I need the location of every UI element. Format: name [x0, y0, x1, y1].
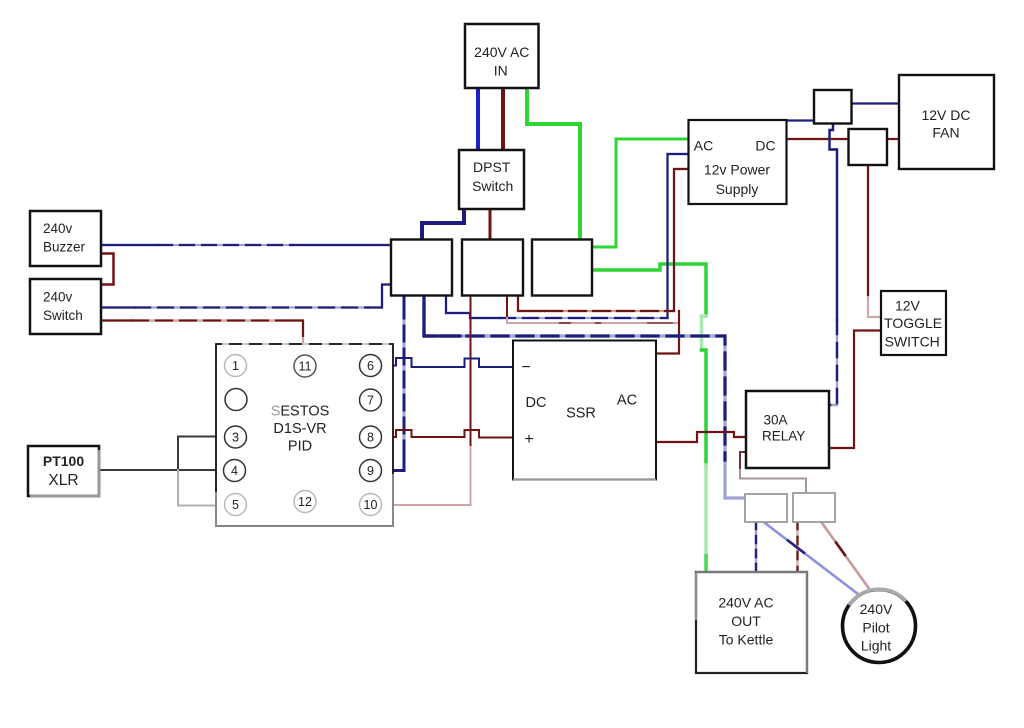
svg-text:SSR: SSR [566, 406, 596, 422]
svg-text:PID: PID [288, 439, 312, 455]
svg-text:Switch: Switch [472, 178, 513, 194]
svg-text:4: 4 [231, 464, 238, 478]
svg-text:+: + [524, 431, 533, 448]
svg-text:To Kettle: To Kettle [719, 632, 774, 648]
svg-text:240V AC: 240V AC [474, 44, 529, 60]
svg-text:11: 11 [299, 360, 312, 374]
svg-text:XLR: XLR [48, 472, 78, 489]
svg-text:AC: AC [617, 393, 637, 409]
svg-text:240v: 240v [43, 221, 73, 236]
svg-text:Pilot: Pilot [862, 620, 889, 636]
svg-text:12V DC: 12V DC [921, 107, 970, 123]
svg-text:7: 7 [367, 394, 374, 408]
svg-text:9: 9 [367, 464, 374, 478]
svg-text:IN: IN [494, 63, 508, 79]
svg-text:Light: Light [861, 638, 891, 654]
svg-text:OUT: OUT [731, 613, 761, 629]
svg-text:12: 12 [298, 495, 312, 509]
svg-text:AC: AC [694, 137, 713, 153]
svg-text:30A: 30A [764, 413, 788, 428]
svg-text:SWITCH: SWITCH [885, 334, 940, 350]
svg-text:D1S-VR: D1S-VR [273, 421, 326, 437]
svg-text:−: − [521, 359, 530, 376]
svg-text:PT100: PT100 [43, 453, 84, 469]
svg-text:1: 1 [232, 359, 239, 373]
svg-text:FAN: FAN [932, 125, 959, 141]
svg-text:240V: 240V [860, 601, 893, 617]
svg-text:8: 8 [367, 431, 374, 445]
svg-text:240V AC: 240V AC [718, 595, 773, 611]
svg-text:Buzzer: Buzzer [43, 240, 86, 255]
svg-text:Switch: Switch [43, 308, 83, 323]
svg-text:DPST: DPST [473, 159, 511, 175]
svg-text:6: 6 [367, 359, 374, 373]
svg-text:RELAY: RELAY [762, 429, 805, 444]
svg-text:3: 3 [232, 431, 239, 445]
svg-text:TOGGLE: TOGGLE [884, 315, 942, 331]
svg-text:DC: DC [755, 137, 775, 153]
svg-text:5: 5 [232, 498, 239, 512]
svg-text:Supply: Supply [716, 181, 759, 197]
svg-text:12V: 12V [895, 298, 921, 314]
svg-text:12v Power: 12v Power [704, 162, 770, 178]
svg-text:10: 10 [364, 498, 378, 512]
svg-text:SESTOS: SESTOS [271, 404, 330, 420]
svg-text:240v: 240v [43, 290, 73, 305]
svg-text:DC: DC [526, 395, 547, 411]
